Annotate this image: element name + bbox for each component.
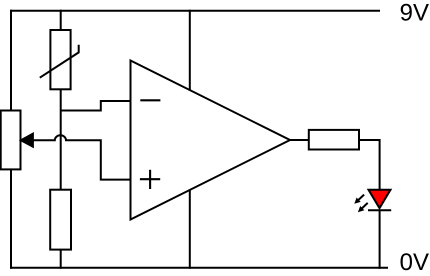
wire R2 to LED [359, 140, 380, 190]
wire thermistor to resistor R1 [60, 89, 62, 189]
wire wiper to non-inverting input (with hop) [30, 135, 131, 179]
LED light arrow 1 [354, 195, 364, 204]
wire R1 to 0V [60, 250, 62, 269]
op-amp non-inverting pin label + [140, 170, 160, 189]
thermistor TH1 [40, 30, 79, 89]
node 9V label [401, 4, 429, 21]
op-amp inverting pin label - [140, 99, 160, 101]
wire op-amp output [290, 139, 309, 141]
potentiometer VR1 [1, 111, 33, 170]
wire op-amp supply (9V to 0V through symbol) [189, 10, 191, 269]
wire left branch bottom (potentiometer to 0V) [10, 170, 12, 269]
op-amp U1 [131, 61, 291, 220]
wire 9V rail [10, 10, 380, 12]
wire inverting input (junction to op-amp) [61, 101, 131, 111]
wire thermistor stub from 9V [60, 10, 62, 30]
node 0V label [401, 253, 429, 270]
LED D1 [368, 190, 391, 211]
LED light arrow 2 [358, 203, 368, 212]
resistor R1 [50, 190, 71, 250]
wire LED to 0V [379, 210, 381, 269]
resistor R2 [309, 130, 359, 150]
wire 0V rail [10, 267, 388, 269]
wire left branch top (9V to potentiometer) [10, 10, 12, 111]
